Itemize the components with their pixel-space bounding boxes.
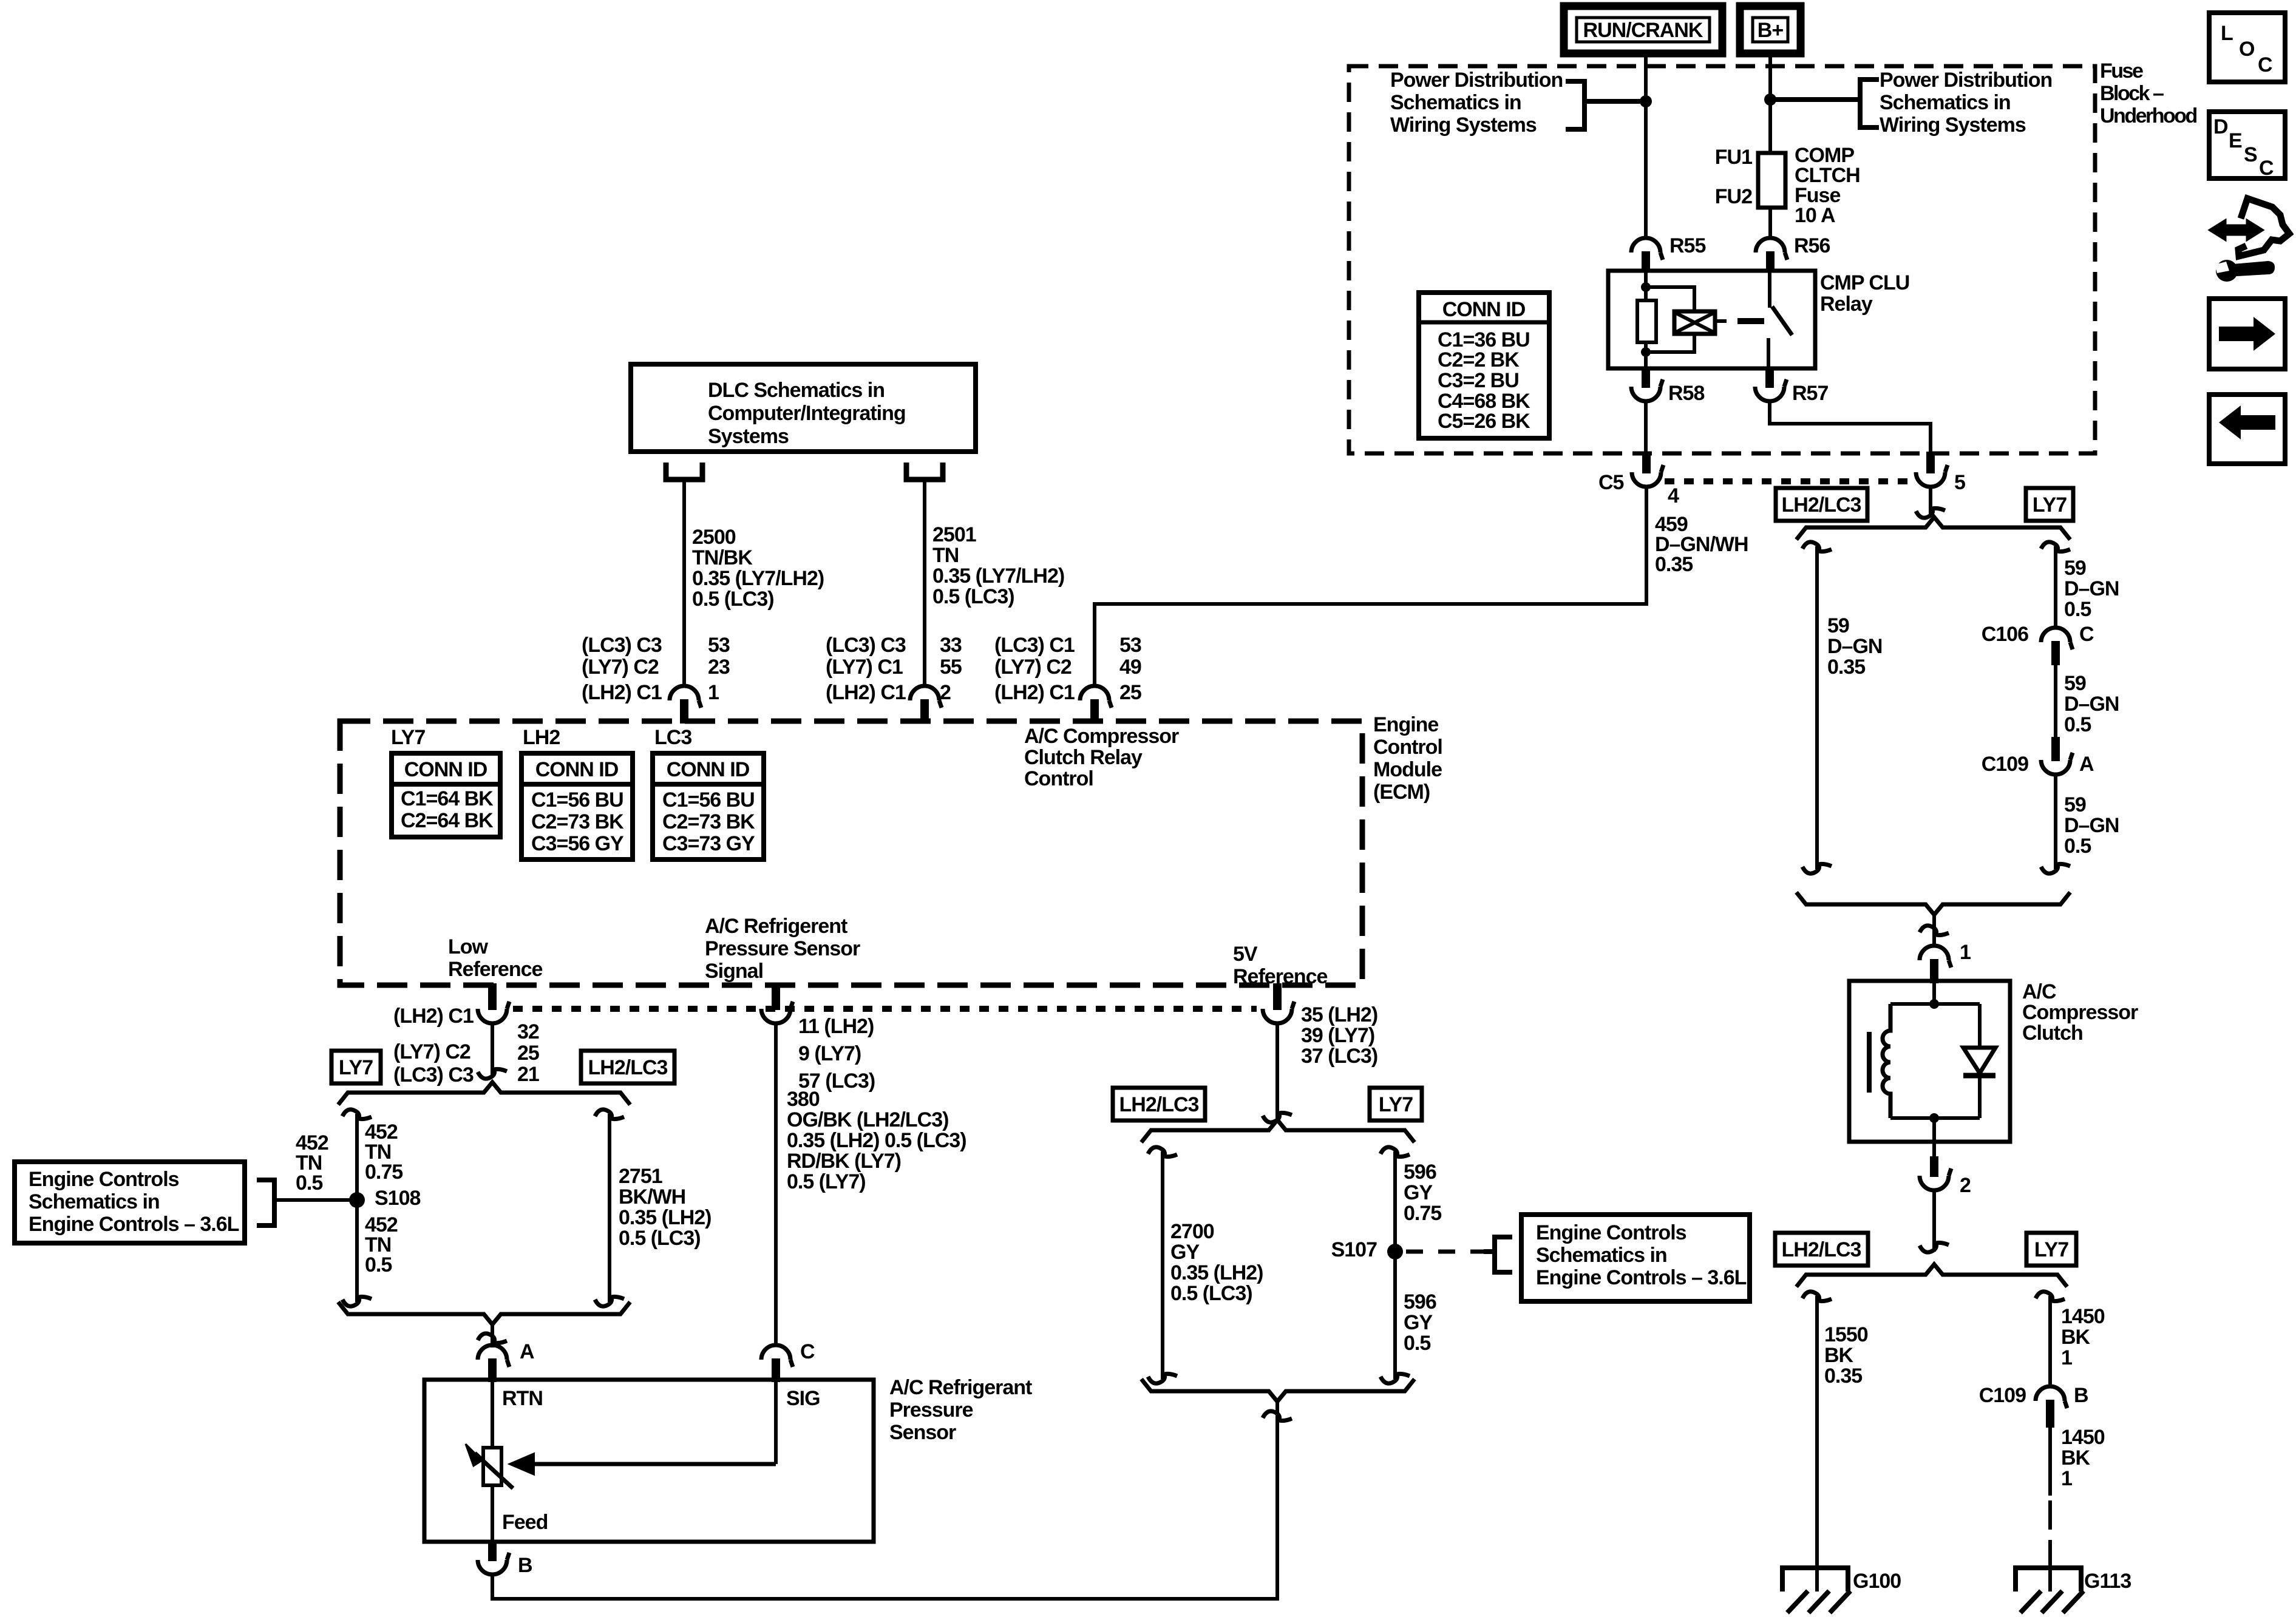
- svg-text:380: 380: [787, 1088, 820, 1111]
- svg-text:32: 32: [517, 1020, 539, 1043]
- svg-text:(LC3) C3: (LC3) C3: [826, 634, 906, 657]
- relay armature link stub: [1715, 319, 1727, 323]
- relay CMP CLU box: [1608, 271, 1815, 368]
- brace split 59 D-GN: [1796, 517, 2070, 540]
- fork terminal right under DLC: [906, 463, 943, 480]
- branch start curl 1450 BK: [2036, 1292, 2065, 1301]
- sensor variable resistor: [483, 1448, 501, 1485]
- dotted connector line ECM bottom: [513, 1006, 1257, 1012]
- svg-text:53: 53: [708, 634, 730, 657]
- branch start curl 2751 BK/WH: [595, 1110, 624, 1119]
- svg-text:Control: Control: [1024, 767, 1093, 790]
- svg-text:10 A: 10 A: [1795, 204, 1835, 227]
- clutch diode: [1978, 1004, 1982, 1048]
- relay switch contact from R56: [1768, 271, 1771, 308]
- svg-text:(ECM): (ECM): [1373, 781, 1430, 804]
- svg-text:0.35 (LY7/LH2): 0.35 (LY7/LH2): [932, 564, 1064, 588]
- wire brace to connector A: [491, 1324, 494, 1347]
- svg-text:Power Distribution: Power Distribution: [1880, 69, 2052, 92]
- connector 1 cavity: [1920, 946, 1951, 968]
- branch end curl 2700 GY: [1148, 1374, 1177, 1383]
- dashed link S107 to note: [1406, 1250, 1484, 1254]
- brace merge to A/C compressor clutch: [1796, 892, 2070, 915]
- svg-text:1: 1: [1960, 941, 1971, 964]
- svg-text:A/C: A/C: [2022, 980, 2056, 1003]
- svg-text:A: A: [2079, 753, 2094, 776]
- svg-text:(LY7) C2: (LY7) C2: [994, 656, 1072, 679]
- label LH2/LC3 lower: [1775, 1233, 1868, 1266]
- svg-text:S107: S107: [1331, 1238, 1377, 1261]
- branch end curl 452 TN: [342, 1297, 372, 1306]
- svg-text:(LY7) C2: (LY7) C2: [582, 656, 659, 679]
- bracket to note right: [1860, 80, 1879, 127]
- svg-text:Clutch Relay: Clutch Relay: [1024, 746, 1143, 769]
- icon wrench: [2216, 260, 2238, 282]
- svg-text:(LC3) C1: (LC3) C1: [994, 634, 1075, 657]
- svg-text:C5=26 BK: C5=26 BK: [1438, 410, 1530, 433]
- svg-text:D–GN: D–GN: [1827, 635, 1882, 658]
- svg-text:CONN ID: CONN ID: [535, 758, 619, 781]
- svg-text:BK: BK: [2061, 1326, 2091, 1349]
- svg-text:1: 1: [708, 681, 719, 704]
- label LY7 upper: [2026, 488, 2073, 521]
- svg-text:DLC Schematics in: DLC Schematics in: [708, 379, 885, 402]
- svg-text:5V: 5V: [1233, 943, 1258, 966]
- svg-text:0.5: 0.5: [2064, 713, 2091, 736]
- svg-text:Power Distribution: Power Distribution: [1390, 69, 1563, 92]
- svg-text:0.5 (LC3): 0.5 (LC3): [1170, 1282, 1252, 1305]
- svg-text:TN/BK: TN/BK: [692, 546, 753, 569]
- svg-text:A/C Refrigerant: A/C Refrigerant: [889, 1376, 1032, 1399]
- wire S108 to note bracket: [274, 1198, 357, 1202]
- svg-text:C1=56 BU: C1=56 BU: [662, 788, 755, 812]
- splice S108: [349, 1192, 365, 1208]
- svg-text:37 (LC3): 37 (LC3): [1301, 1045, 1377, 1068]
- svg-text:LH2/LC3: LH2/LC3: [1119, 1093, 1199, 1116]
- svg-text:Schematics in: Schematics in: [1880, 91, 2011, 114]
- svg-text:C1=56 BU: C1=56 BU: [531, 788, 623, 812]
- svg-text:2501: 2501: [932, 523, 976, 546]
- svg-text:21: 21: [517, 1063, 539, 1086]
- svg-text:23: 23: [708, 656, 730, 679]
- clutch inner bottom wire: [1890, 1116, 1980, 1120]
- connector cavity R55: [1631, 238, 1663, 260]
- svg-text:(LH2) C1: (LH2) C1: [994, 681, 1075, 704]
- svg-text:S108: S108: [375, 1187, 420, 1210]
- wire coil bottom to clutch pin2: [1932, 1118, 1936, 1142]
- note engine controls schematics box 2: [1521, 1215, 1750, 1301]
- svg-text:GY: GY: [1170, 1241, 1200, 1264]
- relay armature dashed link: [1737, 318, 1764, 324]
- wire Feed B to 5V splice: [492, 1402, 1277, 1599]
- svg-text:S: S: [2244, 143, 2257, 166]
- wire RTN to variable resistor: [491, 1382, 494, 1448]
- svg-text:4: 4: [1668, 484, 1679, 507]
- wire R58 to connector C5 pin 4: [1644, 401, 1648, 453]
- svg-text:B: B: [518, 1554, 532, 1577]
- svg-text:0.5: 0.5: [2064, 835, 2091, 858]
- svg-text:R58: R58: [1668, 382, 1704, 405]
- svg-text:FU1: FU1: [1715, 146, 1752, 169]
- svg-text:0.35 (LH2): 0.35 (LH2): [1170, 1261, 1263, 1284]
- svg-text:59: 59: [1827, 614, 1849, 637]
- ECM CONN ID table LC3: [653, 753, 764, 859]
- icon LOC box: [2209, 13, 2285, 82]
- svg-text:0.5: 0.5: [1404, 1332, 1430, 1355]
- svg-text:Schematics in: Schematics in: [1536, 1244, 1667, 1267]
- wire note-left to RUN/CRANK wire: [1584, 99, 1646, 104]
- icon harness double arrow: [2210, 221, 2262, 239]
- svg-text:25: 25: [1119, 681, 1141, 704]
- icon harness outline: [2238, 198, 2289, 256]
- bracket to note left: [1566, 81, 1584, 129]
- fuse block CONN ID table: [1419, 293, 1549, 438]
- wire 380 sensor signal: [774, 1023, 778, 1346]
- brace merge 2700/596 GY: [1141, 1379, 1415, 1402]
- wire top junction to coil: [1646, 287, 1694, 311]
- wire note-right to B+ wire: [1770, 97, 1860, 102]
- svg-text:Compressor: Compressor: [2022, 1001, 2138, 1024]
- wire 2700 GY: [1161, 1151, 1164, 1379]
- fuse block label: [2100, 59, 2197, 127]
- svg-text:11 (LH2): 11 (LH2): [798, 1015, 874, 1038]
- svg-text:Clutch: Clutch: [2022, 1022, 2083, 1045]
- svg-text:Wiring Systems: Wiring Systems: [1390, 114, 1537, 137]
- branch end curl LY7: [2041, 864, 2070, 873]
- svg-text:D: D: [2213, 115, 2228, 138]
- svg-text:C2=64 BK: C2=64 BK: [401, 809, 494, 832]
- svg-text:C3=73 GY: C3=73 GY: [662, 832, 755, 855]
- svg-text:LY7: LY7: [391, 726, 425, 749]
- svg-text:9 (LY7): 9 (LY7): [798, 1042, 861, 1065]
- svg-text:0.5 (LC3): 0.5 (LC3): [692, 588, 774, 611]
- svg-text:25: 25: [517, 1042, 539, 1065]
- branch end curl 2751 BK/WH: [595, 1297, 624, 1306]
- wire low reference stub: [491, 1023, 494, 1077]
- branch end curl LH2/LC3: [1802, 864, 1832, 873]
- connector C106 cavity C: [2041, 628, 2073, 649]
- svg-text:BK/WH: BK/WH: [619, 1185, 685, 1209]
- icon DESC box: [2209, 112, 2285, 178]
- svg-text:0.5: 0.5: [296, 1171, 322, 1195]
- svg-text:Engine Controls – 3.6L: Engine Controls – 3.6L: [29, 1213, 239, 1236]
- branch end curl 596 GY: [1381, 1374, 1410, 1383]
- wire 1450 BK 1 upper: [2048, 1296, 2052, 1386]
- svg-text:35 (LH2): 35 (LH2): [1301, 1003, 1377, 1026]
- node junction on RUN/CRANK wire: [1640, 95, 1652, 107]
- svg-text:59: 59: [2064, 557, 2086, 580]
- svg-text:C: C: [2258, 53, 2272, 76]
- svg-text:2751: 2751: [619, 1165, 662, 1188]
- svg-text:55: 55: [940, 656, 962, 679]
- svg-text:GY: GY: [1404, 1181, 1433, 1204]
- brace split 452 TN / 2751 BK/WH: [338, 1082, 630, 1105]
- svg-text:FU2: FU2: [1715, 185, 1752, 208]
- svg-text:A: A: [520, 1340, 534, 1363]
- wire resistor to bottom junction: [1644, 342, 1648, 368]
- relay resistor: [1637, 300, 1656, 342]
- ECM CONN ID table LY7: [392, 753, 500, 837]
- wire RUN/CRANK down to R55: [1644, 53, 1648, 239]
- svg-text:C3=56 GY: C3=56 GY: [531, 832, 624, 855]
- svg-text:R56: R56: [1794, 234, 1830, 257]
- svg-text:(LH2) C1: (LH2) C1: [582, 681, 662, 704]
- wire 59 D-GN 0.5 upper: [2054, 546, 2057, 628]
- svg-text:0.35: 0.35: [1827, 656, 1865, 679]
- svg-text:Reference: Reference: [448, 958, 543, 981]
- brace merge low reference: [338, 1302, 630, 1324]
- svg-text:CONN ID: CONN ID: [1442, 298, 1526, 321]
- icon forward arrow box: [2209, 299, 2285, 369]
- svg-text:(LC3) C3: (LC3) C3: [582, 634, 662, 657]
- svg-text:49: 49: [1119, 656, 1141, 679]
- clutch node bottom: [1929, 1113, 1939, 1123]
- svg-text:Wiring Systems: Wiring Systems: [1880, 114, 2026, 137]
- svg-text:0.75: 0.75: [1404, 1202, 1441, 1225]
- connector ECM pin3 cavity: [1080, 686, 1112, 708]
- svg-text:1450: 1450: [2061, 1305, 2105, 1328]
- svg-text:59: 59: [2064, 793, 2086, 816]
- relay node top junction: [1641, 282, 1651, 292]
- svg-text:Schematics in: Schematics in: [1390, 91, 1521, 114]
- power feed RUN/CRANK: [1564, 6, 1722, 53]
- svg-text:0.5: 0.5: [2064, 598, 2091, 621]
- connector ECM pressure signal pin: [772, 983, 780, 1010]
- dashed wire to G113: [2048, 1500, 2052, 1568]
- svg-text:C3=2 BU: C3=2 BU: [1438, 369, 1519, 392]
- svg-text:Schematics in: Schematics in: [29, 1190, 160, 1213]
- bracket to note engine controls 1: [257, 1180, 274, 1225]
- svg-text:C: C: [800, 1340, 815, 1363]
- wire R57 over to connector 5: [1770, 401, 1931, 453]
- svg-text:C2=2 BK: C2=2 BK: [1438, 348, 1520, 371]
- svg-text:Sensor: Sensor: [889, 1421, 956, 1444]
- branch start curl 596 GY: [1381, 1147, 1410, 1157]
- svg-text:RUN/CRANK: RUN/CRANK: [1583, 19, 1703, 42]
- svg-text:RTN: RTN: [502, 1387, 543, 1410]
- svg-text:D–GN: D–GN: [2064, 577, 2119, 600]
- svg-text:1: 1: [2061, 1346, 2072, 1369]
- connector C109 cavity B: [2036, 1386, 2067, 1408]
- svg-text:Pressure: Pressure: [889, 1398, 973, 1422]
- svg-text:LY7: LY7: [2033, 493, 2067, 517]
- engine control module boundary: [340, 721, 1362, 985]
- svg-text:B+: B+: [1758, 19, 1784, 42]
- svg-text:0.5 (LC3): 0.5 (LC3): [932, 585, 1014, 608]
- wire 59 D-GN 0.5 middle: [2054, 665, 2057, 738]
- svg-text:TN: TN: [932, 544, 959, 567]
- wire 5V reference stub: [1275, 1023, 1279, 1122]
- svg-text:(LH2) C1: (LH2) C1: [826, 681, 906, 704]
- svg-text:RD/BK (LY7): RD/BK (LY7): [787, 1150, 901, 1173]
- note DLC schematics box: [631, 364, 976, 452]
- svg-text:GY: GY: [1404, 1311, 1433, 1334]
- connector C5 cavity 4: [1642, 452, 1651, 473]
- svg-text:CONN ID: CONN ID: [667, 758, 750, 781]
- svg-text:0.5: 0.5: [365, 1253, 392, 1276]
- fuse FU1/FU2 COMP CLTCH 10A: [1758, 153, 1785, 208]
- svg-text:Underhood: Underhood: [2100, 104, 2197, 127]
- svg-text:Block –: Block –: [2100, 82, 2164, 105]
- svg-text:0.35 (LH2): 0.35 (LH2): [619, 1206, 712, 1229]
- svg-text:Computer/Integrating: Computer/Integrating: [708, 402, 906, 425]
- connector B cavity: [488, 1542, 497, 1561]
- svg-text:Engine Controls: Engine Controls: [29, 1168, 179, 1191]
- wire 2501 TN: [923, 480, 926, 686]
- svg-text:C109: C109: [1979, 1384, 2026, 1407]
- svg-text:C2=73 BK: C2=73 BK: [662, 810, 755, 833]
- svg-text:C109: C109: [1982, 753, 2028, 776]
- svg-text:59: 59: [2064, 672, 2086, 695]
- svg-text:Systems: Systems: [708, 425, 789, 448]
- ground G113: [2016, 1568, 2081, 1592]
- svg-text:0.5 (LC3): 0.5 (LC3): [619, 1227, 701, 1250]
- svg-text:2500: 2500: [692, 526, 736, 549]
- svg-text:(LY7) C2: (LY7) C2: [393, 1040, 470, 1063]
- svg-text:C1=64 BK: C1=64 BK: [401, 787, 494, 810]
- svg-text:C2=73 BK: C2=73 BK: [531, 810, 624, 833]
- svg-text:G100: G100: [1853, 1570, 1901, 1593]
- svg-text:2700: 2700: [1170, 1220, 1214, 1243]
- svg-text:Module: Module: [1373, 758, 1442, 781]
- svg-text:0.5 (LY7): 0.5 (LY7): [787, 1170, 866, 1193]
- svg-text:(LY7) C1: (LY7) C1: [826, 656, 903, 679]
- svg-text:R55: R55: [1669, 234, 1705, 257]
- icon back arrow box: [2209, 395, 2285, 464]
- brace split ground branches: [1796, 1264, 2067, 1287]
- wire 2751 BK/WH: [608, 1114, 611, 1302]
- svg-text:OG/BK (LH2/LC3): OG/BK (LH2/LC3): [787, 1108, 948, 1131]
- svg-text:L: L: [2221, 22, 2233, 45]
- fuse block - underhood boundary: [1349, 66, 2095, 453]
- connector cavity R57: [1765, 367, 1774, 388]
- svg-text:LY7: LY7: [1379, 1093, 1413, 1116]
- wire stub below connector 5: [1929, 487, 1932, 517]
- wire SIG down to wiper: [774, 1382, 778, 1464]
- svg-text:C: C: [2079, 623, 2094, 646]
- ground G100: [1782, 1568, 1848, 1592]
- svg-text:1: 1: [2061, 1467, 2072, 1490]
- clutch inner top wire: [1890, 1002, 1980, 1006]
- svg-text:596: 596: [1404, 1290, 1436, 1314]
- svg-text:0.35: 0.35: [1655, 553, 1693, 576]
- connector cavity R58: [1642, 367, 1650, 388]
- svg-text:CONN ID: CONN ID: [404, 758, 487, 781]
- connector 2 cavity: [1932, 1142, 1936, 1158]
- branch start curl 1550 BK: [1802, 1292, 1832, 1301]
- svg-text:Engine Controls: Engine Controls: [1536, 1221, 1686, 1244]
- wire 2500 TN/BK: [682, 480, 686, 686]
- svg-text:SIG: SIG: [786, 1387, 820, 1410]
- label LH2/LC3 box left: [581, 1051, 674, 1083]
- svg-text:(LC3) C3: (LC3) C3: [393, 1063, 474, 1086]
- svg-text:Low: Low: [448, 935, 489, 958]
- svg-text:Engine Controls – 3.6L: Engine Controls – 3.6L: [1536, 1266, 1747, 1289]
- svg-text:5: 5: [1954, 471, 1965, 494]
- relay switch lower contact: [1767, 338, 1770, 368]
- clutch node top: [1929, 999, 1939, 1009]
- svg-text:BK: BK: [1824, 1344, 1854, 1367]
- splice S107: [1387, 1244, 1403, 1259]
- label LH2/LC3 box middle: [1113, 1088, 1205, 1120]
- svg-text:1550: 1550: [1824, 1323, 1868, 1346]
- wire fuse to R56: [1768, 208, 1772, 239]
- label LY7 box left: [331, 1051, 381, 1083]
- note engine controls schematics box 1: [15, 1162, 245, 1243]
- wire connector2 to splice brace: [1932, 1190, 1936, 1252]
- svg-text:0.35 (LY7/LH2): 0.35 (LY7/LH2): [692, 567, 824, 590]
- svg-text:B: B: [2074, 1384, 2088, 1407]
- wire stub to connector 1: [1932, 915, 1936, 946]
- label LY7 lower: [2026, 1233, 2076, 1266]
- wire 596 GY 0.75 / 0.5: [1393, 1151, 1397, 1379]
- connector 5 cavity: [1926, 452, 1935, 473]
- svg-text:LY7: LY7: [2034, 1238, 2068, 1261]
- brace split 2700/596 GY: [1141, 1120, 1415, 1142]
- svg-text:LH2: LH2: [523, 726, 560, 749]
- svg-text:0.75: 0.75: [365, 1161, 402, 1184]
- svg-text:Pressure Sensor: Pressure Sensor: [705, 937, 860, 960]
- svg-text:Fuse: Fuse: [2100, 59, 2143, 83]
- svg-text:CMP CLU: CMP CLU: [1820, 271, 1909, 294]
- svg-text:G113: G113: [2084, 1570, 2131, 1593]
- label LY7 box middle: [1370, 1088, 1422, 1120]
- clutch coil core bar: [1867, 1032, 1872, 1093]
- branch start curl LY7 59 D-GN: [2041, 542, 2070, 552]
- power feed B+: [1740, 6, 1801, 53]
- svg-text:C5: C5: [1598, 471, 1624, 494]
- clutch coil (inductor): [1883, 1004, 1890, 1118]
- svg-text:Relay: Relay: [1820, 293, 1873, 316]
- svg-text:D–GN: D–GN: [2064, 693, 2119, 716]
- svg-text:2: 2: [1960, 1174, 1971, 1197]
- svg-text:596: 596: [1404, 1161, 1436, 1184]
- svg-text:O: O: [2239, 38, 2255, 61]
- svg-text:Feed: Feed: [502, 1511, 548, 1534]
- wire 59 D-GN 0.5 lower: [2054, 775, 2057, 869]
- dotted connector line C5: [1665, 478, 1914, 484]
- relay coil-side wire from R55: [1644, 271, 1648, 300]
- fork terminal left under DLC: [666, 463, 702, 480]
- node junction on B+ wire: [1764, 93, 1776, 106]
- svg-text:Signal: Signal: [705, 960, 763, 983]
- svg-text:R57: R57: [1792, 382, 1828, 405]
- connector ECM 5V reference pin: [1273, 983, 1282, 1010]
- connector C cavity: [761, 1345, 793, 1367]
- svg-text:BK: BK: [2061, 1446, 2091, 1470]
- wire coil to bottom junction: [1646, 334, 1694, 352]
- connector ECM pin1 cavity: [670, 686, 701, 708]
- wire 452 TN 0.75 / 0.5: [355, 1114, 359, 1302]
- wire 59 D-GN 0.35 branch: [1815, 546, 1819, 869]
- connector cavity R56: [1756, 238, 1787, 260]
- svg-text:LC3: LC3: [654, 726, 691, 749]
- relay switch blade: [1772, 307, 1792, 335]
- connector ECM pin2 cavity: [910, 686, 942, 708]
- svg-text:D–GN: D–GN: [2064, 814, 2119, 837]
- svg-text:E: E: [2229, 129, 2242, 152]
- svg-text:LH2/LC3: LH2/LC3: [588, 1056, 668, 1079]
- relay coil (box with X): [1674, 311, 1715, 334]
- svg-text:C106: C106: [1982, 623, 2028, 646]
- svg-text:C: C: [2259, 157, 2274, 180]
- svg-text:33: 33: [940, 634, 962, 657]
- branch start curl LH2/LC3 59 D-GN: [1802, 542, 1832, 552]
- svg-text:1450: 1450: [2061, 1426, 2105, 1449]
- svg-text:Engine: Engine: [1373, 713, 1438, 736]
- wire variable resistor to Feed pin: [491, 1485, 494, 1543]
- svg-text:Control: Control: [1373, 736, 1442, 759]
